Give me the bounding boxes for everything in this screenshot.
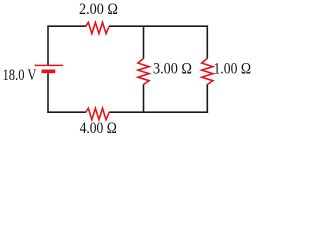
svg-text:18.0 V: 18.0 V	[3, 67, 38, 84]
svg-text:3.00 Ω: 3.00 Ω	[153, 61, 192, 78]
svg-text:2.00 Ω: 2.00 Ω	[79, 1, 118, 18]
svg-text:1.00 Ω: 1.00 Ω	[214, 61, 252, 78]
svg-text:4.00 Ω: 4.00 Ω	[80, 120, 117, 136]
